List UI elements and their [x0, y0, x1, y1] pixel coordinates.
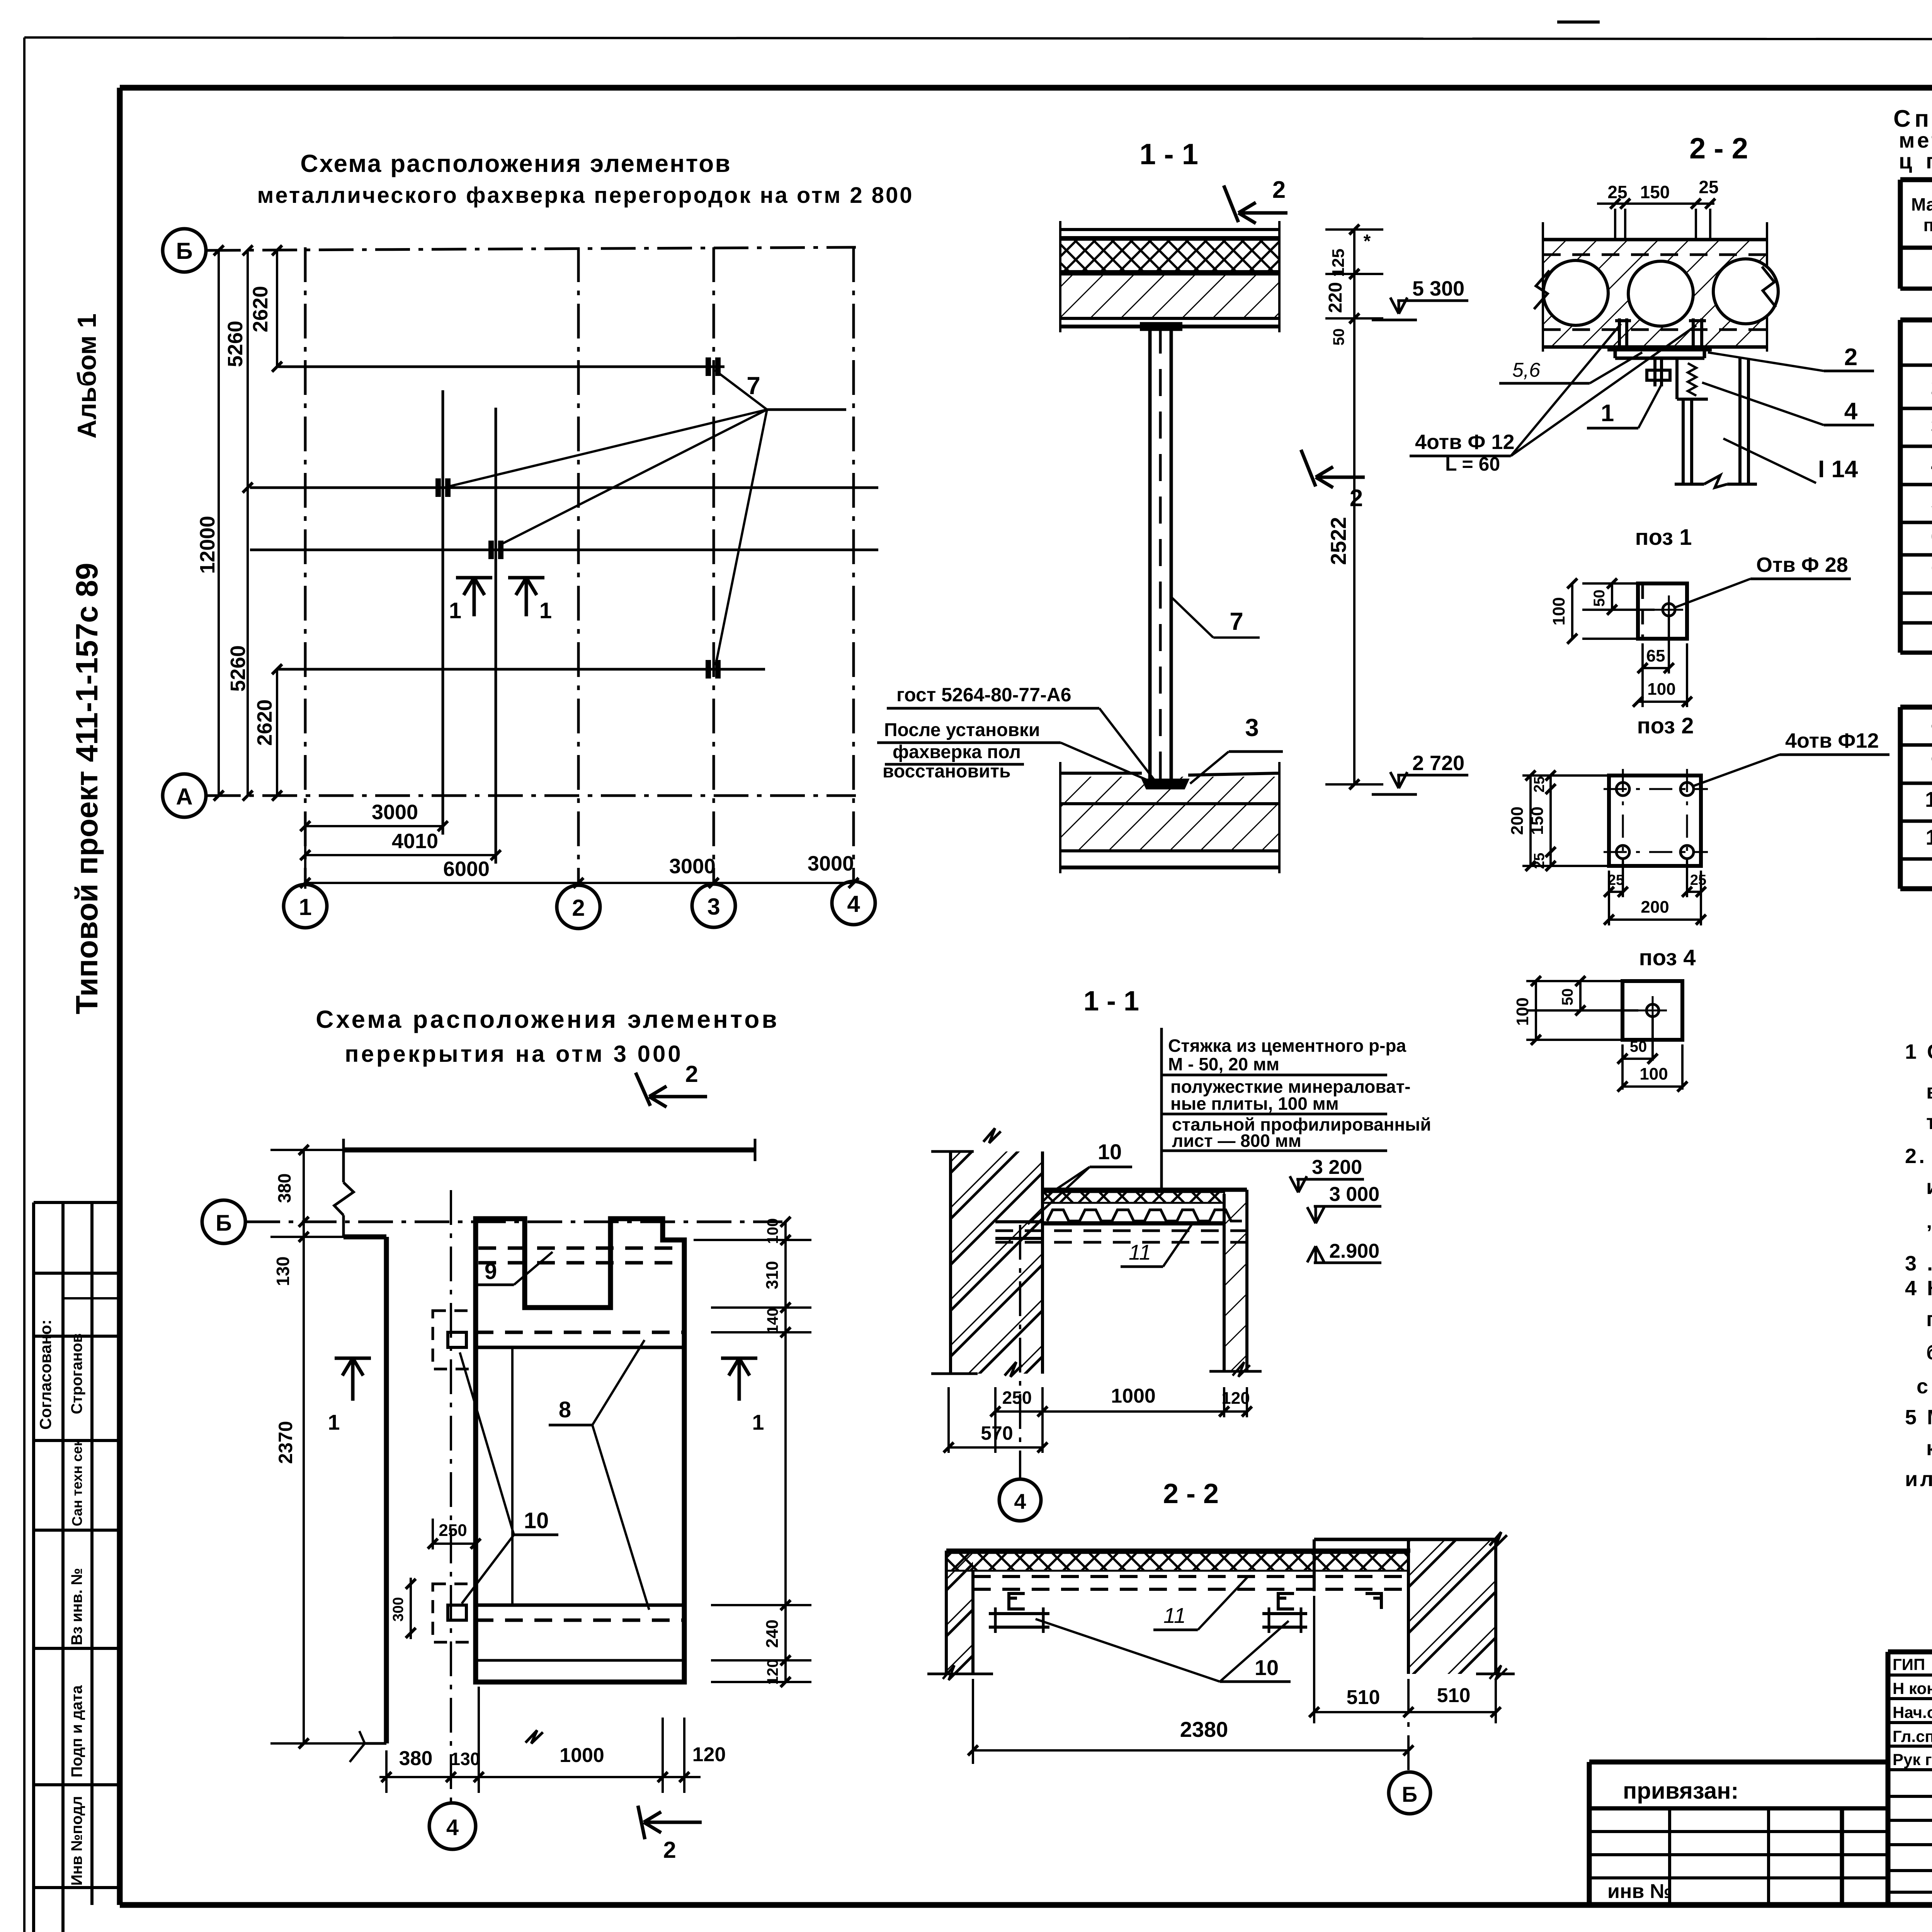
поз 2 dims — [1508, 770, 1706, 925]
axis А (plan 1) — [163, 774, 856, 817]
plan2 slab outline — [476, 1219, 684, 1682]
svg-text:100: 100 — [1647, 680, 1675, 699]
svg-text:2: 2 — [1272, 177, 1286, 203]
deck brackets (bottom 2-2) — [989, 1594, 1381, 1633]
svg-text:25: 25 — [1607, 182, 1627, 202]
svg-text:25: 25 — [1608, 872, 1624, 888]
plan2 small dims 250 300 — [390, 1519, 481, 1639]
поз 4 dims — [1513, 976, 1687, 1092]
label 5,6 (2-2) — [1499, 352, 1642, 383]
bottom 2-2 right wall — [1314, 1532, 1515, 1680]
svg-text:250: 250 — [439, 1521, 467, 1540]
svg-text:А: А — [176, 784, 192, 810]
label 11 (bottom 1-1) — [1121, 1224, 1192, 1267]
svg-text:11: 11 — [1163, 1603, 1186, 1628]
column axis 2 — [557, 247, 600, 929]
svg-text:1000: 1000 — [1111, 1385, 1156, 1407]
label 10 (bottom 1-1) — [1028, 1139, 1132, 1224]
section mark 1 (right) — [508, 578, 552, 623]
svg-text:с уплотнительными шайбами п: с уплотнительными шайбами по ТУ 67- 73 -… — [1917, 1375, 1932, 1398]
label 10 (plan2) — [460, 1352, 558, 1604]
svg-text:поз 1: поз 1 — [1635, 525, 1692, 550]
svg-text:2620: 2620 — [253, 699, 276, 746]
svg-text:2: 2 — [685, 1061, 698, 1087]
svg-text:100: 100 — [764, 1218, 781, 1244]
level mark 2 720 — [1372, 752, 1468, 794]
svg-text:Б: Б — [176, 238, 192, 264]
svg-text:фахверка пол: фахверка пол — [893, 742, 1021, 762]
svg-text:240: 240 — [763, 1619, 782, 1648]
svg-text:5 300: 5 300 — [1412, 277, 1464, 300]
svg-text:4: 4 — [1844, 398, 1858, 425]
svg-text:300: 300 — [390, 1597, 406, 1621]
section marker 2 (plan2 top) — [636, 1061, 707, 1107]
svg-text:3000: 3000 — [808, 852, 854, 875]
spec rows fachwerk — [1931, 333, 1932, 586]
svg-text:2 720: 2 720 — [1412, 752, 1464, 775]
dims 25 150 25 (2-2) — [1597, 177, 1719, 240]
svg-text:Б: Б — [216, 1211, 232, 1236]
svg-text:болтами по ост 34 - 13 -: болтами по ост 34 - 13 - 016 - 77 или ТУ… — [1926, 1341, 1932, 1364]
svg-text:3: 3 — [1245, 714, 1259, 742]
dim chain right of 1-1 — [1325, 224, 1383, 789]
svg-text:1 - 1: 1 - 1 — [1139, 138, 1198, 171]
bracket assembly (2-2) — [1607, 350, 1712, 399]
svg-text:200: 200 — [1641, 898, 1669, 917]
circle Б (bottom 2-2) — [1389, 1679, 1430, 1814]
plan2 axis Б — [202, 1200, 782, 1243]
fachwerk beam row 3 — [250, 541, 878, 559]
svg-text:1: 1 — [328, 1410, 340, 1434]
svg-text:25: 25 — [1690, 872, 1706, 888]
svg-text:привязан:: привязан: — [1623, 1778, 1739, 1804]
svg-text:1 - 1: 1 - 1 — [1083, 986, 1139, 1017]
section mark 1 (left) — [449, 578, 492, 623]
svg-text:4 Крепление профнастила к: 4 Крепление профнастила к металлическим … — [1905, 1277, 1932, 1300]
svg-text:4: 4 — [446, 1815, 459, 1840]
svg-text:3 . Размеры со „ * ” уто: 3 . Размеры со „ * ” уточняются по месту — [1905, 1252, 1932, 1275]
svg-text:380: 380 — [399, 1747, 433, 1770]
svg-text:140: 140 — [764, 1308, 781, 1334]
svg-text:130: 130 — [273, 1257, 293, 1286]
svg-text:перекрытия выполнить в: перекрытия выполнить в каждой гофре само… — [1926, 1308, 1932, 1331]
svg-text:восстановить: восстановить — [883, 761, 1011, 782]
svg-text:1: 1 — [449, 598, 461, 623]
plan2 top wall line — [344, 1139, 755, 1161]
svg-text:100: 100 — [1549, 597, 1568, 625]
level 3 200 — [1290, 1156, 1364, 1192]
svg-text:2: 2 — [1350, 485, 1363, 512]
svg-text:Рук гр: Рук гр — [1893, 1750, 1932, 1769]
column axis 1 — [284, 247, 327, 928]
column axis 3 — [692, 247, 735, 927]
column axis 4 — [832, 247, 875, 925]
svg-text:Гл.спец.: Гл.спец. — [1893, 1727, 1932, 1745]
svg-text:ные плиты, 100 мм: ные плиты, 100 мм — [1170, 1094, 1339, 1114]
svg-text:3 200: 3 200 — [1312, 1156, 1362, 1179]
level 2.900 — [1307, 1240, 1381, 1263]
svg-text:1: 1 — [752, 1410, 764, 1434]
label 4 (2-2) — [1702, 383, 1874, 425]
bottom 1-1 dims — [944, 1385, 1252, 1453]
svg-text:4отв Ф12: 4отв Ф12 — [1785, 729, 1879, 752]
weld gost note — [887, 684, 1155, 781]
floor restore note — [877, 720, 1157, 784]
svg-text:4010: 4010 — [392, 830, 438, 853]
plan2 bottom dims — [379, 1687, 726, 1793]
svg-text:Вз инв. №: Вз инв. № — [68, 1568, 85, 1645]
svg-text:5260: 5260 — [226, 645, 250, 692]
svg-text:гост 5264-80-77-А6: гост 5264-80-77-А6 — [896, 684, 1071, 706]
svg-text:130: 130 — [451, 1749, 480, 1769]
bottom 1-1 floor deck — [995, 1190, 1247, 1242]
svg-text:толщине свариваемых элемен: толщине свариваемых элементов — [1926, 1111, 1932, 1134]
svg-text:11: 11 — [1925, 825, 1932, 849]
label 1 (2-2) — [1587, 384, 1662, 428]
svg-text:50: 50 — [1559, 988, 1576, 1006]
поз 1 dims — [1549, 578, 1692, 707]
svg-text:перекрытия на отм 3 000: перекрытия на отм 3 000 — [345, 1041, 683, 1067]
signature table — [1888, 1652, 1932, 1905]
anchor bolts (2-2) — [1615, 318, 1706, 350]
svg-text:Строганов: Строганов — [68, 1333, 85, 1414]
svg-text:4: 4 — [1014, 1489, 1026, 1514]
svg-text:Н контр.: Н контр. — [1893, 1679, 1932, 1697]
svg-text:25: 25 — [1699, 177, 1718, 197]
svg-text:510: 510 — [1347, 1686, 1380, 1709]
svg-text:Подп и дата: Подп и дата — [68, 1685, 85, 1777]
svg-text:2 - 2: 2 - 2 — [1689, 132, 1748, 165]
svg-text:310: 310 — [763, 1261, 782, 1289]
svg-text:10: 10 — [1255, 1655, 1279, 1680]
plan1 bottom dimensions — [300, 801, 859, 889]
spec table grid — [1900, 180, 1932, 889]
svg-text:*: * — [1364, 231, 1371, 252]
svg-text:высоту сварных швов прини: высоту сварных швов принимать по наимень… — [1926, 1080, 1932, 1103]
svg-text:лист — 800 мм: лист — 800 мм — [1172, 1131, 1301, 1151]
column I14 below bracket (2-2) — [1675, 358, 1757, 488]
svg-text:металлического фахверка пере: металлического фахверка перегородок на о… — [257, 183, 914, 208]
bottom 2-2 dims 510 510 — [1309, 1596, 1501, 1723]
svg-text:2: 2 — [663, 1837, 676, 1863]
svg-text:Стяжка из цементного р-ра: Стяжка из цементного р-ра — [1168, 1036, 1406, 1056]
plan2 left wall — [334, 1150, 386, 1762]
svg-text:220: 220 — [1325, 282, 1346, 313]
svg-text:50: 50 — [1591, 590, 1608, 607]
svg-text:25: 25 — [1531, 776, 1548, 793]
svg-text:150: 150 — [1640, 182, 1670, 202]
label 10 (bottom 2-2) — [1036, 1619, 1291, 1682]
hollow core slab (2-2) — [1534, 222, 1778, 352]
angle 10 boxes (dashed) — [433, 1311, 476, 1642]
svg-text:125: 125 — [1329, 248, 1348, 277]
svg-text:2. Металлические изделия о: 2. Металлические изделия очистить от гря… — [1905, 1145, 1932, 1168]
label 7 (column) — [1171, 597, 1260, 638]
bottom 2-2 slab band — [946, 1551, 1410, 1589]
svg-text:или ТУ - 67 - 74 - 75,: или ТУ - 67 - 74 - 75, шаг заклепок 500 … — [1905, 1468, 1932, 1491]
svg-text:4: 4 — [847, 891, 860, 917]
svg-text:Схема расположения элементов: Схема расположения элементов — [316, 1005, 779, 1033]
поз 4 plate — [1622, 981, 1682, 1040]
fachwerk beam row 4 — [278, 660, 765, 679]
plan1 left dimensions — [196, 245, 282, 801]
svg-text:1: 1 — [299, 894, 311, 920]
spec rows perekrytie — [1925, 711, 1932, 849]
svg-text:50: 50 — [1330, 328, 1347, 346]
svg-text:7: 7 — [1230, 607, 1243, 635]
level mark 5 300 — [1372, 277, 1468, 320]
plan 2 title — [316, 1005, 779, 1067]
svg-text:510: 510 — [1437, 1684, 1471, 1707]
svg-text:3000: 3000 — [372, 801, 418, 824]
svg-text:поз 2: поз 2 — [1637, 713, 1694, 738]
svg-text:2: 2 — [572, 895, 585, 921]
svg-text:I 14: I 14 — [1818, 456, 1858, 483]
label 9 — [477, 1252, 553, 1285]
svg-text:„ Рабитца ”: „ Рабитца ” — [1926, 1209, 1932, 1233]
svg-text:3: 3 — [707, 894, 720, 920]
label 11 (bottom 2-2) — [1153, 1577, 1248, 1630]
upper floor slab (1-1) — [1060, 221, 1279, 332]
plan2 left dims — [270, 1145, 365, 1748]
svg-text:120: 120 — [764, 1659, 781, 1685]
leader to beams 7 — [450, 370, 846, 665]
svg-text:поз 4: поз 4 — [1639, 945, 1696, 970]
svg-text:Отв Ф 28: Отв Ф 28 — [1756, 553, 1848, 577]
svg-text:5,6: 5,6 — [1512, 359, 1540, 381]
label Отв Ф28 — [1675, 553, 1851, 607]
svg-text:150: 150 — [1528, 806, 1547, 835]
lower floor (1-1) — [1060, 762, 1279, 873]
circle 4 (bottom 1-1) — [999, 1225, 1041, 1521]
label 3 (floor) — [1190, 714, 1283, 784]
svg-text:Б: Б — [1402, 1782, 1417, 1806]
beam 9 (dashed, top) — [478, 1248, 684, 1263]
svg-text:После установки: После установки — [884, 720, 1040, 740]
label 4отв Ф12 (поз 2) — [1692, 729, 1889, 786]
section marker 2 lower — [1301, 450, 1365, 512]
svg-text:10: 10 — [1098, 1139, 1122, 1164]
svg-text:65: 65 — [1646, 646, 1665, 665]
svg-text:Сан техн сек: Сан техн сек — [69, 1439, 85, 1526]
fachwerk post line a — [442, 390, 444, 835]
plan2 section marks 1 — [328, 1358, 764, 1434]
svg-text:Марка,: Марка, — [1911, 194, 1932, 214]
bottom 2-2 left wall — [927, 1551, 993, 1680]
svg-text:3 000: 3 000 — [1329, 1183, 1379, 1206]
bottom 1-1 right support — [1209, 1190, 1262, 1377]
svg-text:250: 250 — [1002, 1388, 1032, 1408]
label 4отв Ф12 (2-2) — [1410, 324, 1696, 475]
svg-text:5 Между собой / вдоль гоф: 5 Между собой / вдоль гофра / настилы со… — [1905, 1406, 1932, 1429]
spec table header texts — [1911, 192, 1932, 235]
svg-text:1: 1 — [539, 598, 552, 623]
svg-text:100: 100 — [1639, 1065, 1668, 1083]
svg-text:Схема расположения элементов: Схема расположения элементов — [300, 150, 731, 177]
bottom 2-2 dim 2380 — [968, 1679, 1413, 1764]
fachwerk post line b — [495, 408, 497, 864]
fachwerk beam row 1 — [278, 357, 724, 376]
svg-text:2620: 2620 — [249, 286, 272, 332]
svg-text:М - 50, 20 мм: М - 50, 20 мм — [1168, 1054, 1279, 1074]
svg-text:2370: 2370 — [275, 1421, 296, 1464]
svg-text:и обетонировать бетоном: и обетонировать бетоном класса В 7,5 по … — [1926, 1175, 1932, 1199]
svg-text:120: 120 — [692, 1743, 726, 1766]
svg-text:1000: 1000 — [560, 1744, 604, 1767]
svg-text:3000: 3000 — [669, 855, 716, 878]
svg-text:2: 2 — [1844, 344, 1857, 371]
svg-text:2522: 2522 — [1326, 517, 1350, 565]
bottom 1-1 left wall — [931, 1128, 1043, 1377]
label 2 (2-2) — [1708, 344, 1874, 371]
поз 1 plate — [1638, 583, 1687, 639]
column I14 (1-1) — [1140, 324, 1188, 788]
svg-text:Типовой проект 411-1-157с 8: Типовой проект 411-1-157с 89 — [70, 563, 104, 1014]
svg-text:120: 120 — [1221, 1389, 1250, 1408]
level 3 000 — [1307, 1183, 1381, 1223]
svg-text:Нач.отд.: Нач.отд. — [1893, 1703, 1932, 1721]
beams 8 (dashed channels) — [476, 1332, 684, 1620]
plan title: схема фахверка — [257, 150, 914, 208]
svg-text:Согласовано:: Согласовано: — [36, 1320, 54, 1430]
svg-text:380: 380 — [274, 1173, 294, 1203]
svg-text:8: 8 — [559, 1397, 571, 1422]
svg-text:ц перекрытия на отм .: ц перекрытия на отм . 3 000 — [1899, 149, 1932, 173]
privyazan box — [1589, 1762, 1888, 1905]
section marker 2 upper — [1224, 177, 1287, 223]
svg-text:2.900: 2.900 — [1329, 1240, 1379, 1262]
left margin stamp column — [34, 1202, 120, 1932]
svg-text:11: 11 — [1129, 1240, 1151, 1264]
svg-text:10: 10 — [1925, 787, 1932, 811]
svg-text:4отв Ф 12: 4отв Ф 12 — [1415, 430, 1514, 454]
label 8 — [549, 1340, 649, 1610]
svg-text:6000: 6000 — [443, 857, 490, 881]
technical notes — [1905, 1040, 1932, 1491]
svg-text:инв №: инв № — [1607, 1880, 1672, 1903]
svg-text:Инв №подл: Инв №подл — [68, 1796, 85, 1886]
svg-text:9: 9 — [485, 1259, 497, 1284]
svg-text:2 - 2: 2 - 2 — [1163, 1478, 1219, 1509]
svg-text:Альбом 1: Альбом 1 — [72, 313, 102, 439]
поз 2 plate — [1604, 769, 1708, 873]
plan2 right dim chain — [694, 1217, 811, 1687]
svg-text:1 Сварку производить элект: 1 Сварку производить электродами Э - 42,… — [1905, 1040, 1932, 1063]
fachwerk beam row 2 — [250, 478, 878, 497]
svg-text:1: 1 — [1601, 400, 1614, 427]
svg-text:50: 50 — [1630, 1038, 1647, 1055]
svg-text:5260: 5260 — [224, 321, 247, 367]
svg-text:570: 570 — [981, 1422, 1013, 1444]
svg-text:12000: 12000 — [196, 516, 219, 574]
svg-text:2380: 2380 — [1180, 1717, 1228, 1742]
screed callout texts — [1162, 1028, 1431, 1190]
svg-text:10: 10 — [524, 1508, 549, 1533]
section marker 2 (plan2 bottom) — [638, 1806, 702, 1863]
axis Б (plan 1) — [163, 229, 856, 272]
svg-text:200: 200 — [1508, 806, 1527, 835]
label I 14 — [1723, 439, 1858, 483]
spec table heading — [1893, 105, 1932, 173]
plan2 circle 4 — [429, 1190, 476, 1849]
svg-text:ГИП: ГИП — [1893, 1655, 1925, 1673]
svg-text:поз.: поз. — [1923, 215, 1932, 235]
svg-text:комбинированными заклепками: комбинированными заклепками по ост 34 - … — [1926, 1437, 1932, 1460]
